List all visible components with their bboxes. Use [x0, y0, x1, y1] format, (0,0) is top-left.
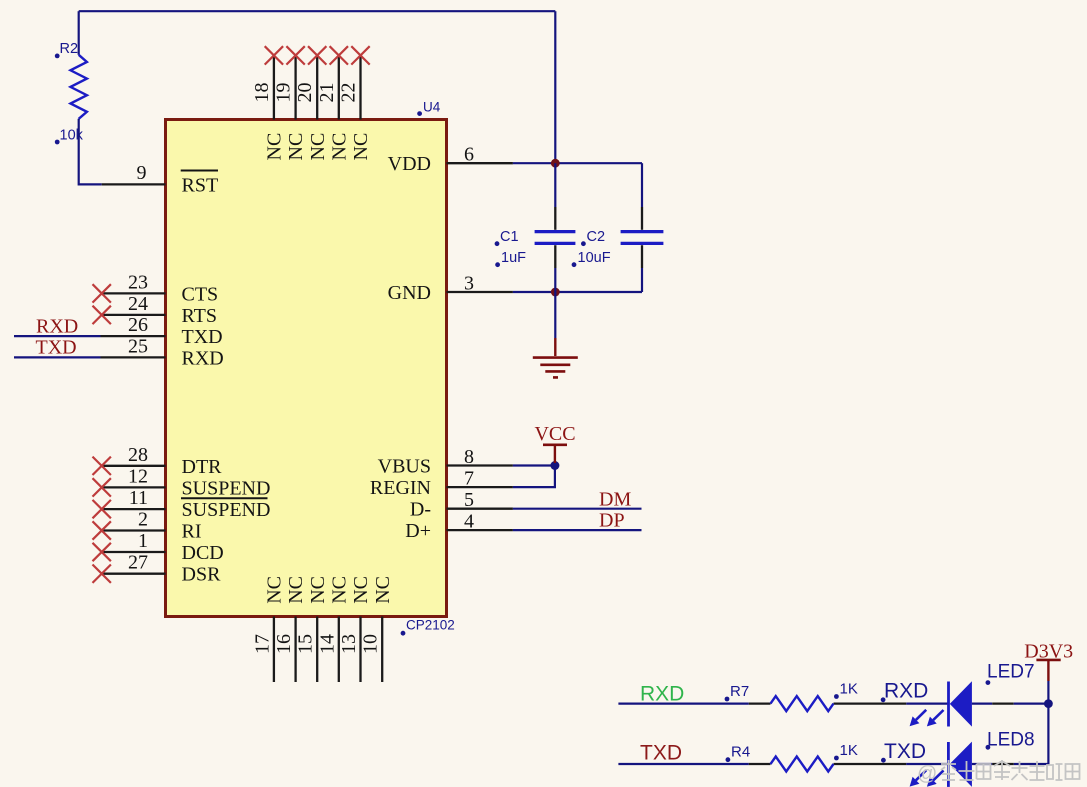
svg-text:7: 7 [464, 468, 474, 490]
wire R4 to LED8 [906, 763, 948, 765]
wire GND node to ground [554, 292, 556, 338]
no-connect X pin 12 [93, 478, 111, 496]
svg-text:12: 12 [128, 465, 148, 487]
svg-text:28: 28 [128, 444, 148, 466]
svg-text:REGIN: REGIN [370, 477, 431, 499]
svg-text:10uF: 10uF [578, 250, 611, 266]
svg-text:TXD: TXD [884, 740, 926, 763]
label C1 [495, 229, 519, 246]
svg-text:27: 27 [128, 552, 148, 574]
no-connect X pin 23 [93, 284, 111, 302]
svg-text:NC: NC [372, 576, 394, 604]
wire RXD to pin 26 [14, 335, 101, 337]
svg-text:15: 15 [295, 634, 317, 654]
value 10k [55, 128, 84, 145]
label R7 [725, 683, 750, 701]
svg-text:1: 1 [138, 530, 148, 552]
svg-text:RTS: RTS [182, 305, 217, 327]
svg-text:24: 24 [128, 293, 148, 315]
svg-text:R7: R7 [730, 683, 749, 700]
svg-text:20: 20 [294, 83, 316, 103]
pin 22 NC top [338, 55, 373, 160]
wire GND to caps [513, 291, 642, 293]
pin 27 DSR [102, 552, 221, 586]
value 1uF [495, 250, 526, 267]
no-connect X pin 2 [93, 521, 111, 539]
wire VBUS to VCC [513, 464, 555, 466]
svg-text:R4: R4 [731, 744, 750, 761]
svg-text:@: @ [917, 763, 937, 785]
wire D3V3 node down to LED8 [1014, 704, 1049, 764]
svg-text:1K: 1K [840, 742, 858, 759]
port label RXD [881, 680, 929, 703]
svg-text:LED7: LED7 [987, 662, 1035, 683]
svg-text:21: 21 [316, 83, 338, 103]
wire D3V3 stem [1047, 681, 1049, 704]
wire R2 bottom to pin 9 [79, 119, 102, 185]
no-connect X pin 11 [93, 500, 111, 518]
svg-text:CP2102: CP2102 [406, 618, 455, 633]
svg-text:NC: NC [285, 576, 307, 604]
svg-text:26: 26 [128, 314, 148, 336]
watermark juejin community [917, 760, 1080, 785]
svg-text:DM: DM [599, 489, 631, 511]
svg-text:1K: 1K [840, 681, 858, 698]
svg-text:R2: R2 [60, 41, 79, 57]
net label RXD green [640, 683, 684, 706]
svg-text:RXD: RXD [884, 680, 928, 703]
pin 8 VBUS [378, 446, 513, 478]
LED7 anode lead and wire to D3V3 [972, 702, 1049, 704]
svg-text:CTS: CTS [182, 283, 219, 305]
junction GND node [551, 288, 560, 297]
no-connect X pin 19 [286, 46, 304, 64]
svg-text:RST: RST [182, 175, 219, 197]
resistor R7 leads [749, 702, 907, 704]
label R4 [726, 744, 751, 763]
svg-text:6: 6 [464, 144, 474, 166]
svg-text:NC: NC [307, 576, 329, 604]
wire D- net DM [513, 508, 642, 510]
pin 16 NC bottom [273, 576, 307, 682]
svg-text:DP: DP [599, 510, 625, 532]
resistor R4 [771, 757, 834, 772]
svg-text:NC: NC [328, 576, 350, 604]
svg-text:3: 3 [464, 273, 474, 295]
svg-text:23: 23 [128, 271, 148, 293]
svg-text:11: 11 [129, 487, 148, 509]
svg-text:U4: U4 [423, 100, 441, 115]
wire TXD to pin 25 [14, 356, 101, 358]
svg-text:RXD: RXD [36, 316, 78, 338]
pin 10 NC bottom [360, 576, 394, 682]
pin 6 VDD [388, 144, 513, 176]
svg-text:10: 10 [360, 634, 382, 654]
power port D3V3 [1024, 641, 1073, 682]
svg-text:RXD: RXD [182, 347, 224, 369]
svg-text:18: 18 [251, 83, 273, 103]
pin 26 TXD [101, 314, 223, 348]
pin 24 RTS [102, 293, 217, 327]
wire VDD to caps [513, 162, 642, 164]
label LED8 [986, 729, 1035, 750]
svg-text:DTR: DTR [182, 456, 223, 478]
label LED7 [986, 662, 1035, 685]
svg-text:TXD: TXD [36, 337, 77, 359]
svg-text:VDD: VDD [388, 153, 431, 175]
svg-text:NC: NC [264, 133, 286, 161]
wire REGIN up to VBUS node [513, 466, 555, 488]
junction VDD node [551, 159, 560, 168]
port label TXD [881, 740, 926, 763]
capacitor C2 leads [641, 163, 643, 292]
junction D3V3 node [1044, 699, 1053, 708]
svg-text:RI: RI [182, 521, 202, 543]
capacitor C2 plates [621, 232, 664, 244]
svg-text:NC: NC [285, 133, 307, 161]
svg-text:25: 25 [128, 335, 148, 357]
svg-text:GND: GND [388, 282, 431, 304]
wire R7 to LED7 [906, 702, 948, 704]
svg-text:2: 2 [138, 509, 148, 531]
svg-text:D-: D- [410, 499, 431, 521]
svg-text:VCC: VCC [534, 423, 575, 445]
wire R2 top lead [78, 11, 80, 55]
svg-text:1uF: 1uF [501, 250, 526, 266]
net label TXD [36, 337, 77, 359]
capacitor C1 leads [554, 163, 556, 292]
value 10uF [572, 250, 611, 267]
net label TXD red [640, 742, 682, 765]
power port VCC [534, 423, 575, 463]
svg-text:C1: C1 [500, 229, 519, 245]
svg-text:NC: NC [307, 133, 329, 161]
pin 2 RI [102, 509, 202, 543]
svg-text:10k: 10k [60, 128, 84, 144]
svg-text:DCD: DCD [182, 542, 224, 564]
svg-text:5: 5 [464, 489, 474, 511]
pin 13 NC bottom [338, 576, 372, 682]
pin 12 SUSPEND [102, 465, 271, 499]
LED8 emission arrows [910, 770, 944, 787]
no-connect X pin 21 [330, 46, 348, 64]
junction VBUS node [550, 461, 559, 470]
pin 4 D+ [405, 511, 513, 543]
resistor R2 [71, 55, 87, 119]
svg-text:NC: NC [350, 576, 372, 604]
pin 1 DCD [102, 530, 224, 564]
wire RXD to R7 [618, 702, 748, 704]
svg-text:NC: NC [328, 133, 350, 161]
label C2 [581, 229, 605, 246]
capacitor C1 plates [535, 232, 576, 244]
pin 5 D- [410, 489, 513, 521]
LED8 anode lead [972, 763, 1014, 765]
wire TXD to R4 [618, 763, 748, 765]
no-connect X pin 27 [93, 565, 111, 583]
pin 21 NC top [316, 55, 351, 160]
svg-text:19: 19 [273, 83, 295, 103]
svg-text:4: 4 [464, 511, 474, 533]
no-connect X pin 20 [308, 46, 326, 64]
svg-text:C2: C2 [587, 229, 606, 245]
pin 3 GND [388, 273, 513, 305]
wire VDD rail vertical [554, 11, 556, 163]
LED7 emission arrows [910, 710, 944, 727]
svg-text:16: 16 [273, 634, 295, 654]
no-connect X pin 28 [93, 457, 111, 475]
pin 18 NC top [251, 55, 286, 160]
IC body U4 CP2102 [166, 120, 447, 617]
resistor R7 [771, 696, 834, 711]
svg-text:8: 8 [464, 446, 474, 468]
resistor R4 leads [749, 763, 907, 765]
svg-text:TXD: TXD [640, 742, 682, 765]
pin 7 REGIN [370, 468, 513, 500]
svg-text:17: 17 [251, 634, 273, 654]
ground symbol [533, 338, 578, 377]
pin 9 RST [102, 162, 166, 184]
net label DM [599, 489, 631, 511]
wire top from R2 to VDD rail [79, 10, 556, 12]
svg-text:VBUS: VBUS [378, 456, 431, 478]
designator U4 [417, 100, 441, 117]
pin name RST with overbar [181, 171, 218, 197]
LED8 diode [948, 742, 972, 787]
no-connect X pin 22 [351, 46, 369, 64]
svg-text:LED8: LED8 [987, 729, 1035, 750]
pin 14 NC bottom [316, 576, 350, 682]
svg-text:9: 9 [137, 162, 147, 184]
svg-text:SUSPEND: SUSPEND [182, 477, 271, 499]
pin 15 NC bottom [295, 576, 329, 682]
wire D+ net DP [513, 529, 642, 531]
svg-text:NC: NC [350, 133, 372, 161]
value 1K for R4 [834, 742, 858, 760]
label R2 [55, 41, 78, 58]
net label DP [599, 510, 625, 532]
LED7 diode [949, 681, 972, 726]
pin 17 NC bottom [251, 576, 285, 682]
svg-text:DSR: DSR [182, 564, 222, 586]
svg-text:D+: D+ [405, 520, 431, 542]
value 1K for R7 [834, 681, 858, 699]
no-connect X pin 24 [93, 306, 111, 324]
svg-text:RXD: RXD [640, 683, 684, 706]
pin 28 DTR [102, 444, 222, 478]
part number CP2102 [401, 618, 455, 636]
svg-text:SUSPEND: SUSPEND [182, 499, 271, 521]
no-connect X pin 1 [93, 543, 111, 561]
svg-text:13: 13 [338, 634, 360, 654]
svg-text:22: 22 [338, 83, 360, 103]
svg-text:14: 14 [316, 634, 338, 654]
net label RXD [36, 316, 78, 338]
svg-text:NC: NC [264, 576, 286, 604]
pin 19 NC top [273, 55, 308, 160]
pin 11 SUSPEND overbar [102, 487, 271, 521]
pin 23 CTS [102, 271, 218, 305]
svg-text:TXD: TXD [182, 326, 223, 348]
pin 20 NC top [294, 55, 329, 160]
pin 25 RXD [101, 335, 224, 369]
no-connect X pin 18 [265, 46, 283, 64]
